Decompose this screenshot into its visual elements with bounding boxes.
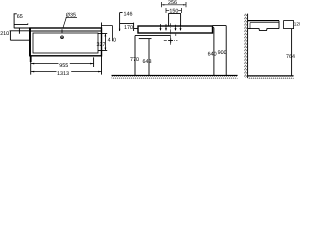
- bottom extension ticks: [31, 56, 102, 75]
- wall hatching: [244, 14, 247, 78]
- middle floor hatching: [112, 76, 238, 79]
- svg-text:170: 170: [124, 25, 133, 31]
- side floor line: [248, 75, 294, 77]
- 643 vertical line: [148, 39, 150, 76]
- tap hole cross: [60, 29, 64, 33]
- side basin underside with drain notch: [248, 29, 279, 31]
- dim 210 lines: [10, 28, 30, 40]
- 770 vertical line: [134, 36, 136, 76]
- svg-text:764: 764: [286, 54, 295, 60]
- svg-text:146: 146: [124, 12, 133, 18]
- front view basin rect: [138, 26, 213, 33]
- small tick under rect: [175, 34, 177, 36]
- middle view left extension of plan rect: [101, 23, 103, 29]
- 764 vertical line: [291, 29, 293, 76]
- dim 40 elbow leader: [102, 26, 113, 42]
- svg-text:900: 900: [218, 50, 227, 56]
- svg-text:1313: 1313: [57, 71, 69, 77]
- 900 elbow and vertical: [213, 26, 227, 76]
- wall line side view: [247, 14, 249, 78]
- drain cross dash-dot horizontal: [164, 40, 178, 42]
- svg-text:120: 120: [294, 22, 300, 27]
- dim 120 bracket rect: [284, 21, 294, 29]
- dim 327 extension lines: [98, 34, 107, 51]
- svg-text:0: 0: [113, 37, 116, 43]
- svg-text:327: 327: [97, 42, 106, 48]
- dim 65 bracket: [14, 14, 30, 28]
- svg-text:4: 4: [108, 37, 111, 43]
- dim 150 line with end ticks: [166, 8, 182, 13]
- svg-text:Ø35: Ø35: [66, 13, 76, 19]
- dim 327 line with arrows: [104, 34, 106, 51]
- dim 170 lines: [120, 23, 138, 31]
- dim 256 line with end ticks: [162, 2, 187, 7]
- middle floor line: [112, 74, 238, 76]
- 770 leader horizontal: [135, 35, 171, 37]
- side basin profile top: [248, 20, 279, 22]
- left view outer rect (basin plan outline): [30, 28, 102, 56]
- svg-text:65: 65: [17, 14, 23, 20]
- left view inner bowl rect: [33, 33, 98, 53]
- drain cross bold: [169, 38, 173, 42]
- left view back ledge line: [30, 30, 102, 32]
- svg-text:256: 256: [168, 0, 177, 6]
- vertical centerline dash-dot: [170, 23, 172, 45]
- svg-text:955: 955: [59, 63, 68, 69]
- faucet outline above basin: [169, 14, 181, 26]
- 640 stub and vertical: [213, 28, 214, 76]
- side basin right edge: [278, 21, 280, 29]
- svg-text:640: 640: [208, 51, 217, 57]
- label Ø35: [66, 16, 77, 18]
- svg-text:643: 643: [143, 59, 152, 65]
- dim 146 bracket: [120, 13, 123, 31]
- dim 955 line: [31, 63, 93, 65]
- leader line to diameter label: [63, 17, 67, 28]
- svg-text:770: 770: [130, 57, 139, 63]
- svg-text:210: 210: [0, 31, 9, 37]
- overflow circle: [61, 36, 64, 39]
- side floor hatching: [248, 76, 294, 79]
- side basin inner rim line: [250, 23, 279, 29]
- 643 leader horizontal: [139, 38, 152, 40]
- dim 1313 line: [31, 71, 101, 73]
- svg-text:150: 150: [169, 8, 178, 14]
- hole position ticks in front rect: [161, 24, 181, 30]
